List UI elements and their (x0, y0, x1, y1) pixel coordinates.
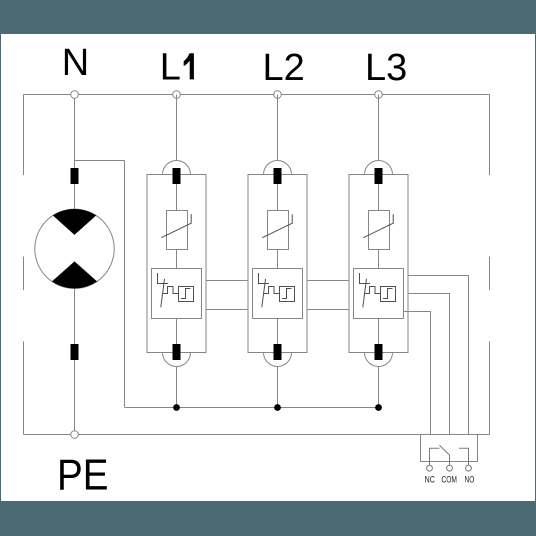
svg-text:L3: L3 (365, 47, 407, 89)
varistor body (369, 211, 390, 250)
wire L2 terminal to module (277, 95, 279, 161)
wire left border dash 1 (23, 95, 25, 176)
svg-text:N: N (62, 42, 89, 84)
module box L2 (248, 175, 307, 353)
wire plug to varistor (176, 184, 178, 211)
plug arc bottom (264, 353, 292, 367)
node junction dot L1 (173, 404, 180, 411)
wire monitor to bottom plug (277, 319, 279, 345)
wire L1 terminal to module (176, 95, 178, 161)
wire plug to varistor (378, 184, 380, 211)
node L3 terminal (375, 91, 383, 99)
svg-text:L: L (160, 47, 181, 89)
wire monitor link lower L1-L2 (206, 309, 248, 311)
wire spark gap to PE terminal (74, 289, 76, 431)
plug contact bottom (274, 344, 282, 360)
plug contact top (173, 168, 181, 184)
wire L3 terminal to module (378, 95, 380, 161)
wire monitor link upper L1-L2 (206, 280, 248, 282)
svg-text:PE: PE (57, 451, 109, 500)
wire monitor link upper L2-L3 (307, 280, 349, 282)
spark gap top electrode (53, 209, 96, 235)
plug contact top (375, 168, 383, 184)
plug arc bottom (365, 353, 393, 367)
contact COM stem (449, 455, 451, 462)
spark gap N-PE circle (35, 209, 114, 288)
wire varistor to monitor (378, 250, 380, 269)
monitor thermal switch (158, 273, 194, 307)
wire module to PE bus (378, 367, 380, 408)
wire varistor to monitor (176, 250, 178, 269)
plug arc top (264, 161, 292, 175)
wire PE bottom line (24, 434, 421, 436)
wire relay box to right border (478, 434, 490, 436)
wire N terminal to top fuse (74, 95, 76, 210)
node PE terminal (71, 431, 79, 439)
node COM terminal (447, 465, 453, 471)
wire plug to varistor (277, 184, 279, 211)
wire monitor link lower L2-L3 (307, 309, 349, 311)
wire module to PE bus (176, 367, 178, 408)
module box L3 (349, 175, 408, 353)
wire top bus (24, 94, 490, 96)
varistor body (268, 211, 289, 250)
node NC terminal (427, 465, 433, 471)
plug arc top (163, 161, 191, 175)
plug contact top (274, 168, 282, 184)
node junction dot L3 (375, 404, 382, 411)
relay box remote contact (421, 435, 478, 462)
contact NO arm (459, 448, 469, 461)
svg-text:NC: NC (425, 474, 435, 484)
wire monitor to bottom plug (176, 319, 178, 345)
node L2 terminal (274, 91, 282, 99)
wire monitor to bottom plug (378, 319, 380, 345)
svg-text:L2: L2 (263, 47, 305, 89)
fuse link top (N) (71, 168, 79, 184)
varistor arrow (363, 214, 393, 237)
fuse link bottom (N) (71, 344, 79, 360)
plug arc top (365, 161, 393, 175)
monitor thermal switch (360, 273, 396, 307)
terminal stub NO (468, 462, 470, 466)
wire varistor to monitor (277, 250, 279, 269)
node NO terminal (466, 465, 472, 471)
wire left border dash 3 (23, 342, 25, 435)
monitor thermal switch (259, 273, 295, 307)
wire right border dash 1 (489, 95, 491, 176)
svg-text:NO: NO (465, 474, 475, 484)
contact blade (440, 445, 450, 454)
contact NC arm (430, 448, 440, 461)
monitor box (152, 269, 202, 319)
varistor arrow (161, 214, 191, 237)
terminal stub NC (429, 462, 431, 466)
module box L1 (147, 175, 206, 353)
node L1 terminal (173, 91, 181, 99)
wire N branch vertical (124, 161, 126, 408)
wire right border dash 3 (489, 342, 491, 435)
wire signal NC run (404, 312, 431, 435)
varistor arrow (262, 214, 292, 237)
node N terminal (71, 91, 79, 99)
monitor signal square (179, 287, 194, 302)
wire left border dash 2 (23, 257, 25, 291)
svg-text:COM: COM (441, 474, 457, 484)
varistor body (167, 211, 188, 250)
wire signal COM run (408, 294, 450, 435)
monitor signal square (280, 287, 295, 302)
plug contact bottom (173, 344, 181, 360)
monitor box (354, 269, 404, 319)
node junction dot L2 (274, 404, 281, 411)
wire signal NO run (408, 276, 469, 435)
spark gap bottom electrode (52, 261, 97, 288)
wire right border dash 2 (489, 257, 491, 291)
terminal stub COM (449, 462, 451, 466)
monitor signal square (381, 287, 396, 302)
wire module to PE bus (277, 367, 279, 408)
plug contact bottom (375, 344, 383, 360)
wire N branch horizontal (75, 160, 125, 162)
monitor box (253, 269, 303, 319)
wire bottom module bus (125, 407, 379, 409)
plug arc bottom (163, 353, 191, 367)
